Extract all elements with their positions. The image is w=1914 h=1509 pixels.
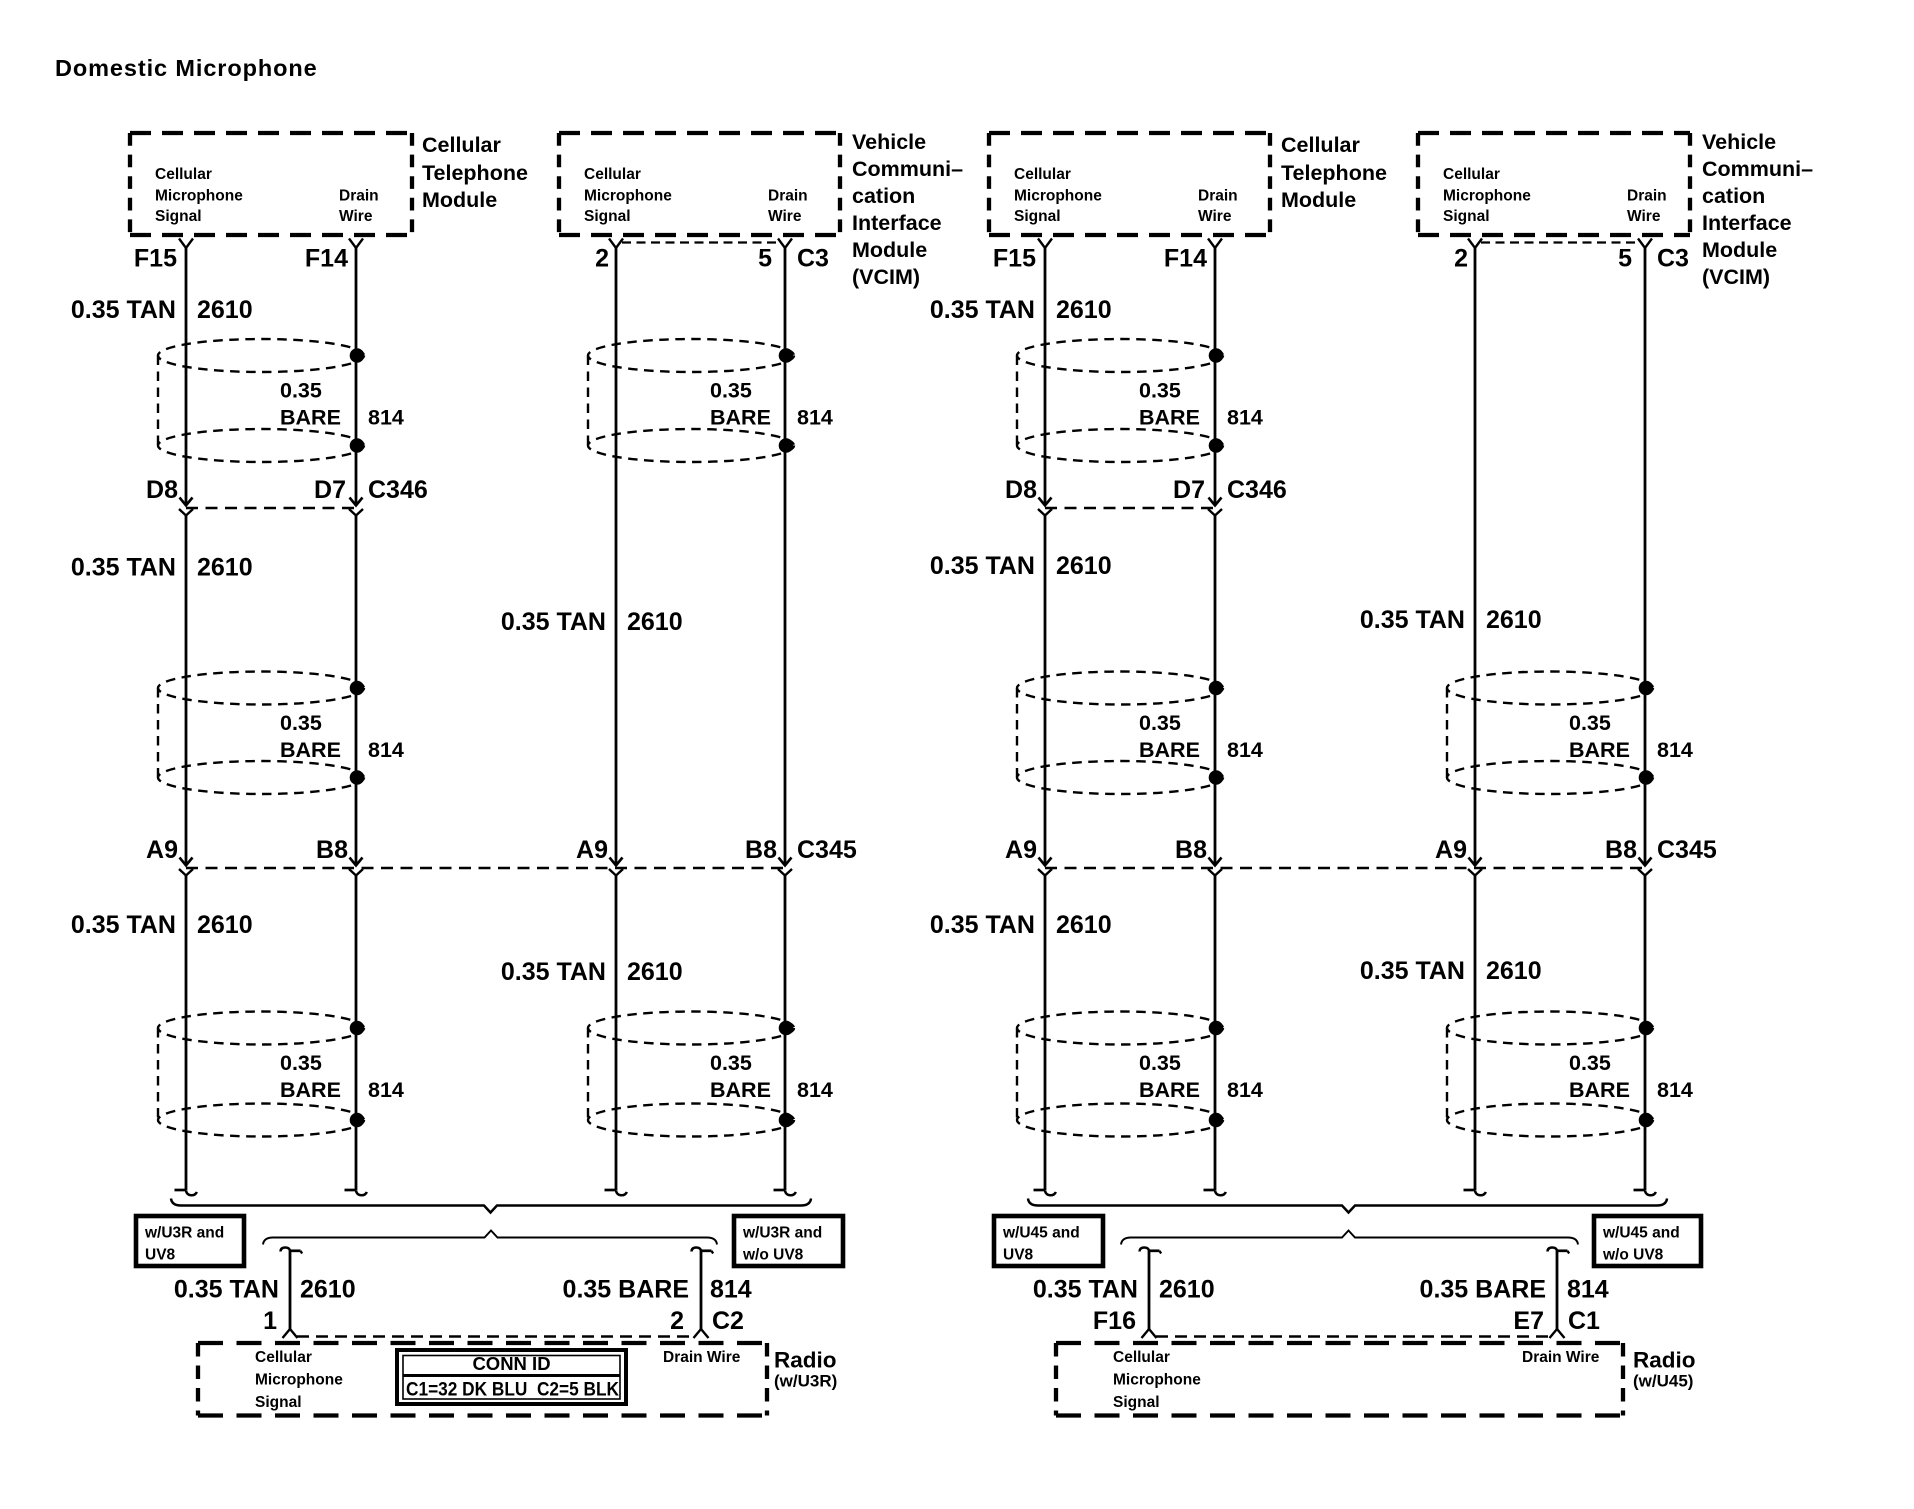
svg-text:BARE: BARE xyxy=(710,1078,771,1102)
wire radio1 signal xyxy=(289,1250,292,1329)
svg-text:F14: F14 xyxy=(305,245,348,273)
connector C345 pin arrows CTM1 xyxy=(180,858,363,866)
label 0.35 BARE 814 CTM2 upper xyxy=(1139,379,1263,430)
svg-text:D7: D7 xyxy=(314,476,346,504)
connector C345 labels VCIM2 xyxy=(1435,836,1637,864)
connector C346 pin arrows CTM2 xyxy=(1039,498,1222,506)
svg-text:2: 2 xyxy=(670,1307,684,1335)
svg-text:2: 2 xyxy=(595,245,609,273)
pin name text CTM1 drain xyxy=(339,188,379,226)
connector C346 labels CTM2 xyxy=(1005,476,1287,504)
svg-text:C345: C345 xyxy=(1657,836,1717,864)
pin label 2 VCIM1 xyxy=(595,245,609,273)
label TAN 2610 VCIM2 low xyxy=(1360,957,1542,985)
svg-text:w/U45 and: w/U45 and xyxy=(1002,1225,1080,1242)
svg-text:Drain: Drain xyxy=(1627,188,1667,205)
svg-text:814: 814 xyxy=(797,406,833,430)
svg-text:F15: F15 xyxy=(134,245,177,273)
label TAN 2610 CTM1 row D xyxy=(71,911,253,939)
connector C345 labels CTM2 xyxy=(1005,836,1207,864)
svg-text:Vehicle: Vehicle xyxy=(852,130,926,154)
lead end CTM1 signal xyxy=(175,1190,197,1195)
brace option right (radio pigtails) xyxy=(1121,1231,1578,1245)
wire CTM2 drain seg1 xyxy=(1214,248,1217,506)
label TAN 2610 VCIM1 mid xyxy=(501,608,683,636)
svg-text:Wire: Wire xyxy=(1198,208,1232,225)
svg-text:0.35: 0.35 xyxy=(1139,1051,1181,1075)
wire VCIM2 drain seg1 xyxy=(1644,248,1647,866)
label 0.35 BARE 814 CTM1 lower xyxy=(280,1051,404,1102)
label TAN 2610 CTM2 row C xyxy=(930,552,1112,580)
svg-text:Cellular: Cellular xyxy=(422,133,501,157)
radio1 pin name signal xyxy=(255,1349,343,1411)
svg-text:F15: F15 xyxy=(993,245,1036,273)
connector C346 sockets CTM2 xyxy=(1038,509,1222,516)
wire CTM2 signal seg2 xyxy=(1044,516,1047,866)
wire CTM1 drain seg3 xyxy=(355,876,358,1191)
splice dot VCIM2 lower bottom xyxy=(1639,1113,1654,1128)
svg-text:0.35 TAN: 0.35 TAN xyxy=(1360,606,1465,634)
lead end VCIM1 drain xyxy=(774,1190,796,1195)
pin label F15 CTM1 xyxy=(134,245,177,273)
connector C346 pin arrows CTM1 xyxy=(180,498,363,506)
module name CTM2 xyxy=(1281,133,1387,212)
svg-text:w/o UV8: w/o UV8 xyxy=(742,1247,804,1264)
shield cylinder CTM1 upper xyxy=(158,339,364,462)
svg-text:Interface: Interface xyxy=(1702,211,1792,235)
svg-text:Cellular: Cellular xyxy=(1113,1349,1170,1366)
svg-text:Drain: Drain xyxy=(1198,188,1238,205)
svg-text:0.35: 0.35 xyxy=(1569,711,1611,735)
pin label E7 radio2 xyxy=(1513,1307,1544,1335)
svg-text:Wire: Wire xyxy=(768,208,802,225)
shield cylinder CTM1 middle xyxy=(158,672,364,795)
svg-text:F14: F14 xyxy=(1164,245,1207,273)
connector C3 link VCIM1 xyxy=(622,241,779,243)
lead start radio1 drain xyxy=(692,1248,714,1254)
shield cylinder VCIM1 upper xyxy=(588,339,794,462)
label BARE 814 radio2 xyxy=(1420,1276,1609,1304)
svg-text:0.35 BARE: 0.35 BARE xyxy=(563,1276,689,1304)
connector C346 line CTM2 xyxy=(1045,507,1215,509)
wire CTM1 drain seg1 xyxy=(355,248,358,506)
svg-text:814: 814 xyxy=(1657,1078,1693,1102)
svg-text:w/U3R and: w/U3R and xyxy=(144,1225,224,1242)
svg-text:Signal: Signal xyxy=(584,208,631,225)
svg-text:(w/U3R): (w/U3R) xyxy=(774,1372,837,1391)
svg-text:814: 814 xyxy=(1227,1078,1263,1102)
label TAN 2610 CTM1 row C xyxy=(71,554,253,582)
connector C345 sockets VCIM2 xyxy=(1468,869,1652,876)
title Domestic Microphone xyxy=(55,55,318,81)
svg-text:Cellular: Cellular xyxy=(584,166,641,183)
svg-text:BARE: BARE xyxy=(280,738,341,762)
svg-text:UV8: UV8 xyxy=(1003,1247,1034,1264)
svg-text:A9: A9 xyxy=(146,836,178,864)
splice dot CTM1 middle top xyxy=(350,681,365,696)
svg-text:w/o UV8: w/o UV8 xyxy=(1602,1247,1664,1264)
svg-text:Domestic Microphone: Domestic Microphone xyxy=(55,55,318,81)
wire CTM1 signal seg1 xyxy=(185,248,188,506)
svg-text:Drain: Drain xyxy=(768,188,808,205)
svg-text:814: 814 xyxy=(1227,738,1263,762)
option box w/U45 and w/o UV8 xyxy=(1594,1216,1701,1266)
label BARE 814 radio1 xyxy=(563,1276,752,1304)
wire CTM2 signal seg1 xyxy=(1044,248,1047,506)
svg-text:0.35 TAN: 0.35 TAN xyxy=(1033,1276,1138,1304)
splice dot VCIM2 middle bottom xyxy=(1639,770,1654,785)
wire VCIM1 signal seg3 xyxy=(615,876,618,1191)
svg-text:BARE: BARE xyxy=(1569,1078,1630,1102)
svg-text:C346: C346 xyxy=(368,476,428,504)
svg-text:2: 2 xyxy=(1454,245,1468,273)
brace group right (all wires) xyxy=(1028,1199,1667,1213)
wire CTM1 signal seg2 xyxy=(185,516,188,866)
svg-text:0.35: 0.35 xyxy=(1139,379,1181,403)
svg-text:814: 814 xyxy=(1227,406,1263,430)
pin name text VCIM2 drain xyxy=(1627,188,1667,226)
connector C345 sockets CTM2 xyxy=(1038,869,1222,876)
svg-text:Signal: Signal xyxy=(1014,208,1061,225)
svg-text:A9: A9 xyxy=(576,836,608,864)
svg-text:D7: D7 xyxy=(1173,476,1205,504)
svg-text:C3: C3 xyxy=(797,245,829,273)
svg-text:B8: B8 xyxy=(316,836,348,864)
svg-text:814: 814 xyxy=(368,406,404,430)
radio2 name xyxy=(1633,1348,1696,1391)
svg-text:0.35 BARE: 0.35 BARE xyxy=(1420,1276,1546,1304)
radio1 pin name drain xyxy=(663,1349,741,1366)
module name CTM1 xyxy=(422,133,528,212)
svg-text:Microphone: Microphone xyxy=(1443,188,1531,205)
svg-text:CONN ID: CONN ID xyxy=(472,1353,550,1374)
svg-text:0.35: 0.35 xyxy=(1569,1051,1611,1075)
svg-text:BARE: BARE xyxy=(1139,406,1200,430)
lead start radio2 drain xyxy=(1548,1248,1570,1254)
terminal Y CTM1 right pin xyxy=(349,239,363,249)
svg-text:814: 814 xyxy=(710,1276,752,1304)
svg-text:2610: 2610 xyxy=(1159,1276,1215,1304)
connector link radio2 xyxy=(1156,1335,1550,1337)
svg-text:C345: C345 xyxy=(797,836,857,864)
connector label C3 VCIM2 xyxy=(1657,245,1689,273)
pin name text VCIM1 signal xyxy=(584,166,672,225)
terminal Y VCIM1 right pin xyxy=(778,239,792,249)
label 0.35 BARE 814 VCIM2 lower xyxy=(1569,1051,1693,1102)
svg-text:814: 814 xyxy=(1567,1276,1609,1304)
pin label F16 radio2 xyxy=(1093,1307,1136,1335)
shield cylinder CTM2 middle xyxy=(1017,672,1223,795)
connector C345 pin arrows VCIM1 xyxy=(610,858,792,866)
svg-text:C1: C1 xyxy=(1568,1307,1600,1335)
svg-text:Microphone: Microphone xyxy=(1113,1372,1201,1389)
radio2 pin name signal xyxy=(1113,1349,1201,1411)
wire CTM2 drain seg3 xyxy=(1214,876,1217,1191)
svg-text:2610: 2610 xyxy=(1486,606,1542,634)
option box w/U45 and UV8 xyxy=(994,1216,1103,1266)
shield cylinder VCIM1 lower xyxy=(588,1012,794,1137)
svg-text:Radio: Radio xyxy=(1633,1348,1696,1373)
svg-text:Microphone: Microphone xyxy=(255,1372,343,1389)
pin label 2 radio1 xyxy=(670,1307,684,1335)
connector C345 line left half xyxy=(186,867,785,869)
connector C345 pin arrows CTM2 xyxy=(1039,858,1222,866)
svg-text:Module: Module xyxy=(1281,188,1356,212)
svg-text:0.35 TAN: 0.35 TAN xyxy=(930,552,1035,580)
lead start radio1 signal xyxy=(281,1248,303,1254)
pin label 1 radio1 xyxy=(263,1307,277,1335)
svg-text:5: 5 xyxy=(758,245,772,273)
pin name text CTM2 signal xyxy=(1014,166,1102,225)
svg-text:E7: E7 xyxy=(1513,1307,1544,1335)
connector C345 sockets CTM1 xyxy=(179,869,363,876)
shield cylinder CTM2 upper xyxy=(1017,339,1223,462)
svg-text:BARE: BARE xyxy=(710,406,771,430)
terminal Y radio1 drain xyxy=(694,1329,709,1338)
svg-text:Signal: Signal xyxy=(1443,208,1490,225)
svg-text:814: 814 xyxy=(368,1078,404,1102)
wire CTM2 signal seg3 xyxy=(1044,876,1047,1191)
svg-text:Module: Module xyxy=(422,188,497,212)
svg-text:Wire: Wire xyxy=(339,208,373,225)
svg-text:Signal: Signal xyxy=(1113,1394,1160,1411)
wire CTM1 signal seg3 xyxy=(185,876,188,1191)
pin label F14 CTM1 xyxy=(305,245,348,273)
svg-text:2610: 2610 xyxy=(627,608,683,636)
splice dot CTM2 middle top xyxy=(1209,681,1224,696)
label TAN 2610 VCIM1 low xyxy=(501,958,683,986)
splice dot CTM2 upper bottom xyxy=(1209,438,1224,453)
svg-text:Cellular: Cellular xyxy=(1443,166,1500,183)
shield cylinder CTM2 lower xyxy=(1017,1012,1223,1137)
connector C345 line right half xyxy=(1045,867,1645,869)
label 0.35 BARE 814 CTM1 middle xyxy=(280,711,404,762)
svg-text:BARE: BARE xyxy=(1569,738,1630,762)
svg-text:0.35: 0.35 xyxy=(280,711,322,735)
svg-text:B8: B8 xyxy=(1175,836,1207,864)
radio box w/U3R xyxy=(198,1343,767,1416)
label TAN 2610 CTM2 row D xyxy=(930,911,1112,939)
lead end CTM2 signal xyxy=(1034,1190,1056,1195)
svg-text:2610: 2610 xyxy=(1056,552,1112,580)
svg-text:w/U45 and: w/U45 and xyxy=(1602,1225,1680,1242)
svg-text:0.35: 0.35 xyxy=(280,379,322,403)
terminal Y radio2 signal xyxy=(1142,1329,1157,1338)
svg-text:Drain: Drain xyxy=(339,188,379,205)
svg-text:5: 5 xyxy=(1618,245,1632,273)
svg-text:Drain Wire: Drain Wire xyxy=(663,1349,741,1366)
svg-text:Microphone: Microphone xyxy=(584,188,672,205)
splice dot CTM2 lower top xyxy=(1209,1021,1224,1036)
lead end VCIM2 signal xyxy=(1464,1190,1486,1195)
splice dot VCIM2 middle top xyxy=(1639,681,1654,696)
pin name text CTM2 drain xyxy=(1198,188,1238,226)
svg-text:Microphone: Microphone xyxy=(155,188,243,205)
wire VCIM1 signal seg1 xyxy=(615,248,618,866)
svg-text:0.35 TAN: 0.35 TAN xyxy=(930,296,1035,324)
terminal Y radio1 signal xyxy=(283,1329,298,1338)
svg-text:Radio: Radio xyxy=(774,1348,837,1373)
connector label C2 xyxy=(712,1307,744,1335)
svg-text:A9: A9 xyxy=(1005,836,1037,864)
lead end VCIM1 signal xyxy=(605,1190,627,1195)
terminal Y radio2 drain xyxy=(1550,1329,1565,1338)
wire VCIM1 drain seg1 xyxy=(784,248,787,866)
label 0.35 BARE 814 VCIM1 lower xyxy=(710,1051,833,1102)
module box VCIM1 xyxy=(559,133,840,235)
svg-text:Communi–: Communi– xyxy=(1702,157,1813,181)
wire CTM2 drain seg2 xyxy=(1214,516,1217,866)
connector C345 labels CTM1 xyxy=(146,836,348,864)
wire VCIM1 drain seg3 xyxy=(784,876,787,1191)
svg-text:Cellular: Cellular xyxy=(1281,133,1360,157)
svg-text:A9: A9 xyxy=(1435,836,1467,864)
pin label 2 VCIM2 xyxy=(1454,245,1468,273)
terminal Y VCIM2 left pin xyxy=(1468,239,1482,249)
svg-text:2610: 2610 xyxy=(197,296,253,324)
connector link radio1 xyxy=(297,1335,694,1337)
wire VCIM2 drain seg3 xyxy=(1644,876,1647,1191)
module box CTM2 xyxy=(989,133,1270,235)
svg-text:0.35: 0.35 xyxy=(710,1051,752,1075)
label TAN 2610 radio1 xyxy=(174,1276,356,1304)
svg-text:BARE: BARE xyxy=(280,406,341,430)
brace group left (all wires) xyxy=(171,1199,811,1213)
splice dot VCIM2 lower top xyxy=(1639,1021,1654,1036)
radio1 name xyxy=(774,1348,837,1391)
svg-text:C2: C2 xyxy=(712,1307,744,1335)
svg-text:814: 814 xyxy=(797,1078,833,1102)
lead end VCIM2 drain xyxy=(1634,1190,1656,1195)
shield cylinder VCIM2 middle xyxy=(1447,672,1653,795)
svg-text:UV8: UV8 xyxy=(145,1247,176,1264)
svg-text:0.35 TAN: 0.35 TAN xyxy=(71,911,176,939)
svg-text:C1=32 DK BLU C2=5 BLK: C1=32 DK BLU C2=5 BLK xyxy=(406,1380,619,1401)
module name VCIM1 xyxy=(852,130,963,289)
svg-text:cation: cation xyxy=(1702,184,1765,208)
lead start radio2 signal xyxy=(1140,1248,1162,1254)
terminal Y CTM2 left pin xyxy=(1038,239,1052,249)
splice dot CTM1 lower bottom xyxy=(350,1113,365,1128)
splice dot VCIM1 upper top xyxy=(779,348,794,363)
svg-text:Module: Module xyxy=(852,238,927,262)
svg-text:2610: 2610 xyxy=(300,1276,356,1304)
svg-text:C3: C3 xyxy=(1657,245,1689,273)
svg-text:Telephone: Telephone xyxy=(1281,161,1387,185)
svg-text:BARE: BARE xyxy=(280,1078,341,1102)
pin name text VCIM2 signal xyxy=(1443,166,1531,225)
lead end CTM2 drain xyxy=(1204,1190,1226,1195)
label 0.35 BARE 814 VCIM2 middle xyxy=(1569,711,1693,762)
svg-text:Vehicle: Vehicle xyxy=(1702,130,1776,154)
splice dot VCIM1 upper bottom xyxy=(779,438,794,453)
svg-text:w/U3R and: w/U3R and xyxy=(742,1225,822,1242)
svg-text:B8: B8 xyxy=(745,836,777,864)
svg-text:(w/U45): (w/U45) xyxy=(1633,1372,1693,1391)
splice dot CTM1 middle bottom xyxy=(350,770,365,785)
svg-text:Signal: Signal xyxy=(155,208,202,225)
svg-text:Cellular: Cellular xyxy=(255,1349,312,1366)
pin label F14 CTM2 xyxy=(1164,245,1207,273)
svg-text:Wire: Wire xyxy=(1627,208,1661,225)
svg-text:Communi–: Communi– xyxy=(852,157,963,181)
wire radio2 drain xyxy=(1556,1250,1559,1329)
svg-text:0.35: 0.35 xyxy=(710,379,752,403)
connector C3 link VCIM2 xyxy=(1481,241,1639,243)
svg-text:cation: cation xyxy=(852,184,915,208)
svg-text:D8: D8 xyxy=(1005,476,1037,504)
connector C345 pin arrows VCIM2 xyxy=(1469,858,1652,866)
radio box w/U45 xyxy=(1056,1343,1623,1416)
svg-text:2610: 2610 xyxy=(1056,911,1112,939)
splice dot VCIM1 lower top xyxy=(779,1021,794,1036)
svg-text:2610: 2610 xyxy=(1486,957,1542,985)
pin name text CTM1 signal xyxy=(155,166,243,225)
svg-text:0.35: 0.35 xyxy=(280,1051,322,1075)
option box w/U3R and UV8 xyxy=(136,1216,244,1266)
svg-text:0.35 TAN: 0.35 TAN xyxy=(501,958,606,986)
wire VCIM2 signal seg3 xyxy=(1474,876,1477,1191)
module box VCIM2 xyxy=(1418,133,1690,235)
svg-text:0.35 TAN: 0.35 TAN xyxy=(930,911,1035,939)
svg-text:C346: C346 xyxy=(1227,476,1287,504)
terminal Y CTM2 right pin xyxy=(1208,239,1222,249)
pin label 5 VCIM2 xyxy=(1618,245,1632,273)
splice dot VCIM1 lower bottom xyxy=(779,1113,794,1128)
wire VCIM2 signal seg1 xyxy=(1474,248,1477,866)
connector label C3 VCIM1 xyxy=(797,245,829,273)
module box CTM1 xyxy=(130,133,412,235)
svg-text:2610: 2610 xyxy=(197,554,253,582)
connector C346 sockets CTM1 xyxy=(179,509,363,516)
svg-text:F16: F16 xyxy=(1093,1307,1136,1335)
splice dot CTM1 upper bottom xyxy=(350,438,365,453)
label TAN 2610 VCIM2 mid xyxy=(1360,606,1542,634)
label TAN 2610 CTM2 row A xyxy=(930,296,1112,324)
svg-text:Module: Module xyxy=(1702,238,1777,262)
label 0.35 BARE 814 CTM2 lower xyxy=(1139,1051,1263,1102)
svg-text:0.35 TAN: 0.35 TAN xyxy=(501,608,606,636)
splice dot CTM1 lower top xyxy=(350,1021,365,1036)
svg-text:814: 814 xyxy=(1657,738,1693,762)
conn id table xyxy=(397,1350,626,1404)
connector C346 line CTM1 xyxy=(186,507,356,509)
wire radio2 signal xyxy=(1148,1250,1151,1329)
svg-text:Cellular: Cellular xyxy=(1014,166,1071,183)
svg-text:814: 814 xyxy=(368,738,404,762)
label 0.35 BARE 814 CTM2 middle xyxy=(1139,711,1263,762)
terminal Y VCIM2 right pin xyxy=(1638,239,1652,249)
connector C346 labels CTM1 xyxy=(146,476,428,504)
svg-text:0.35 TAN: 0.35 TAN xyxy=(1360,957,1465,985)
svg-text:2610: 2610 xyxy=(1056,296,1112,324)
wire radio1 drain xyxy=(700,1250,703,1329)
svg-text:Telephone: Telephone xyxy=(422,161,528,185)
terminal Y CTM1 left pin xyxy=(179,239,193,249)
label TAN 2610 CTM1 row A xyxy=(71,296,253,324)
svg-text:(VCIM): (VCIM) xyxy=(852,265,920,289)
svg-text:0.35: 0.35 xyxy=(1139,711,1181,735)
svg-text:0.35 TAN: 0.35 TAN xyxy=(71,554,176,582)
shield cylinder CTM1 lower xyxy=(158,1012,364,1137)
splice dot CTM1 upper top xyxy=(350,348,365,363)
svg-text:Cellular: Cellular xyxy=(155,166,212,183)
connector label C345 right xyxy=(1657,836,1717,864)
svg-text:B8: B8 xyxy=(1605,836,1637,864)
pin label 5 VCIM1 xyxy=(758,245,772,273)
terminal Y VCIM1 left pin xyxy=(609,239,623,249)
svg-text:0.35 TAN: 0.35 TAN xyxy=(174,1276,279,1304)
